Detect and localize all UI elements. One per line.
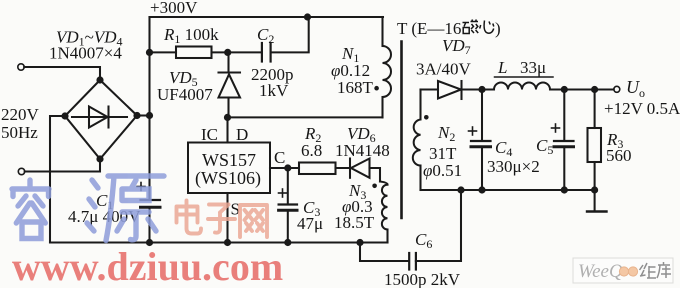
svg-text:560: 560 bbox=[606, 146, 632, 165]
transformer core bbox=[400, 42, 403, 219]
node bridge right bbox=[133, 112, 140, 119]
node C pin C3 bbox=[284, 164, 291, 171]
node R3 top bbox=[591, 86, 598, 93]
svg-text:47μ: 47μ bbox=[297, 214, 323, 233]
S pin wire bbox=[226, 193, 228, 243]
inductor L bbox=[494, 83, 550, 90]
node top rail C2 bbox=[304, 13, 311, 20]
node R3 ground bbox=[591, 186, 598, 193]
svg-text:1500p 2kV: 1500p 2kV bbox=[384, 270, 461, 288]
svg-text:C: C bbox=[274, 148, 285, 167]
resistor R1 bbox=[150, 51, 177, 53]
watermark dianziwang (pink CJK) bbox=[177, 201, 268, 238]
transformer winding N1 bbox=[381, 17, 383, 46]
diode VD6 bbox=[336, 167, 351, 169]
op IC WS157 box bbox=[188, 143, 270, 194]
svg-text:1N4148: 1N4148 bbox=[335, 141, 390, 160]
wire D node to N1 bbox=[228, 116, 383, 118]
svg-text:1N4007×4: 1N4007×4 bbox=[49, 44, 122, 63]
capacitor C1 bbox=[141, 199, 161, 201]
node C5 rail bbox=[561, 186, 568, 193]
svg-text:): ) bbox=[495, 19, 501, 38]
svg-text:UF4007: UF4007 bbox=[157, 85, 213, 104]
node C4 rail bbox=[478, 186, 485, 193]
node S rail bbox=[224, 239, 231, 246]
capacitor C6 branch bbox=[360, 243, 409, 262]
svg-text:L: L bbox=[497, 58, 507, 77]
svg-text:18.5T: 18.5T bbox=[334, 213, 375, 232]
capacitor C5 bbox=[563, 90, 565, 141]
node C3 rail bbox=[284, 239, 291, 246]
label CJK cixin (magnetic core) bbox=[463, 20, 494, 34]
svg-text:168T: 168T bbox=[337, 78, 374, 97]
input terminal bottom (220V) bbox=[18, 168, 24, 174]
svg-text:330μ×2: 330μ×2 bbox=[487, 157, 540, 176]
node L C5 bbox=[561, 86, 568, 93]
svg-text:3A/40V: 3A/40V bbox=[416, 60, 472, 79]
input terminal top (220V) bbox=[18, 64, 24, 70]
node VD7 C4 bbox=[478, 86, 485, 93]
watermark WeeQoo box bbox=[573, 258, 673, 283]
node bridge left bbox=[61, 112, 68, 119]
diode VD5 bbox=[227, 52, 229, 72]
svg-text:IC: IC bbox=[201, 125, 218, 144]
N1 polarity dot bbox=[374, 86, 379, 91]
svg-text:+12V 0.5A: +12V 0.5A bbox=[604, 99, 680, 118]
transformer winding N3 bbox=[380, 182, 388, 185]
transformer winding N2 bbox=[419, 90, 421, 120]
node bus R1 tap bbox=[146, 49, 153, 56]
svg-text:R1 100k: R1 100k bbox=[163, 25, 219, 46]
svg-text:33μ: 33μ bbox=[520, 58, 546, 77]
node D bbox=[224, 114, 231, 121]
capacitor C2 bbox=[228, 51, 262, 53]
svg-text:www.dziuu.com: www.dziuu.com bbox=[12, 244, 283, 288]
wire bridge plus to bus bbox=[137, 114, 150, 116]
bottom rail primary bbox=[50, 241, 388, 243]
wire L to output bbox=[550, 88, 614, 90]
node bus bridge plus bbox=[146, 112, 153, 119]
svg-text:φ0.51: φ0.51 bbox=[423, 161, 462, 180]
svg-text:D: D bbox=[236, 125, 248, 144]
diode VD7 bbox=[421, 88, 439, 90]
capacitor C4 bbox=[481, 90, 483, 141]
wire D pin bbox=[226, 117, 228, 142]
node C6 rail bbox=[356, 239, 363, 246]
svg-text:6.8: 6.8 bbox=[301, 141, 322, 160]
top rail +300V bbox=[150, 16, 384, 18]
node bridge top bbox=[96, 76, 103, 83]
svg-text:1kV: 1kV bbox=[259, 81, 289, 100]
node bridge bottom bbox=[96, 155, 103, 162]
N2 polarity dot bbox=[424, 115, 429, 120]
node bus bottom bbox=[146, 239, 153, 246]
wire bridge minus to bottom rail bbox=[50, 116, 65, 243]
bridge inner diode bbox=[72, 116, 127, 118]
bridge rectifier VD1-VD4 diamond bbox=[65, 80, 137, 159]
output terminal circle bbox=[614, 86, 620, 92]
svg-text:50Hz: 50Hz bbox=[1, 123, 38, 142]
resistor R2 bbox=[299, 163, 336, 175]
ground bbox=[594, 190, 596, 211]
N3 polarity dot bbox=[372, 184, 377, 189]
svg-text:(WS106): (WS106) bbox=[195, 168, 261, 189]
node C6 secondary rail bbox=[457, 186, 464, 193]
svg-text:WeeQ: WeeQ bbox=[578, 261, 623, 282]
svg-text:+300V: +300V bbox=[150, 0, 198, 17]
svg-text:WS157: WS157 bbox=[202, 150, 256, 170]
resistor R3 bbox=[594, 90, 596, 129]
wire input bottom to bridge bottom bbox=[25, 159, 100, 172]
wire input top to bridge top bbox=[24, 67, 100, 80]
C pin wire bbox=[270, 167, 299, 169]
capacitor C3 bbox=[287, 168, 289, 204]
bottom rail secondary bbox=[421, 189, 595, 191]
watermark rongyuan (blue CJK) bbox=[12, 176, 164, 241]
node R1 C2 VD5 bbox=[224, 49, 231, 56]
bus vertical +300V line bbox=[148, 17, 150, 200]
svg-text:220V: 220V bbox=[1, 105, 40, 124]
weiku CJK small bbox=[640, 262, 672, 278]
